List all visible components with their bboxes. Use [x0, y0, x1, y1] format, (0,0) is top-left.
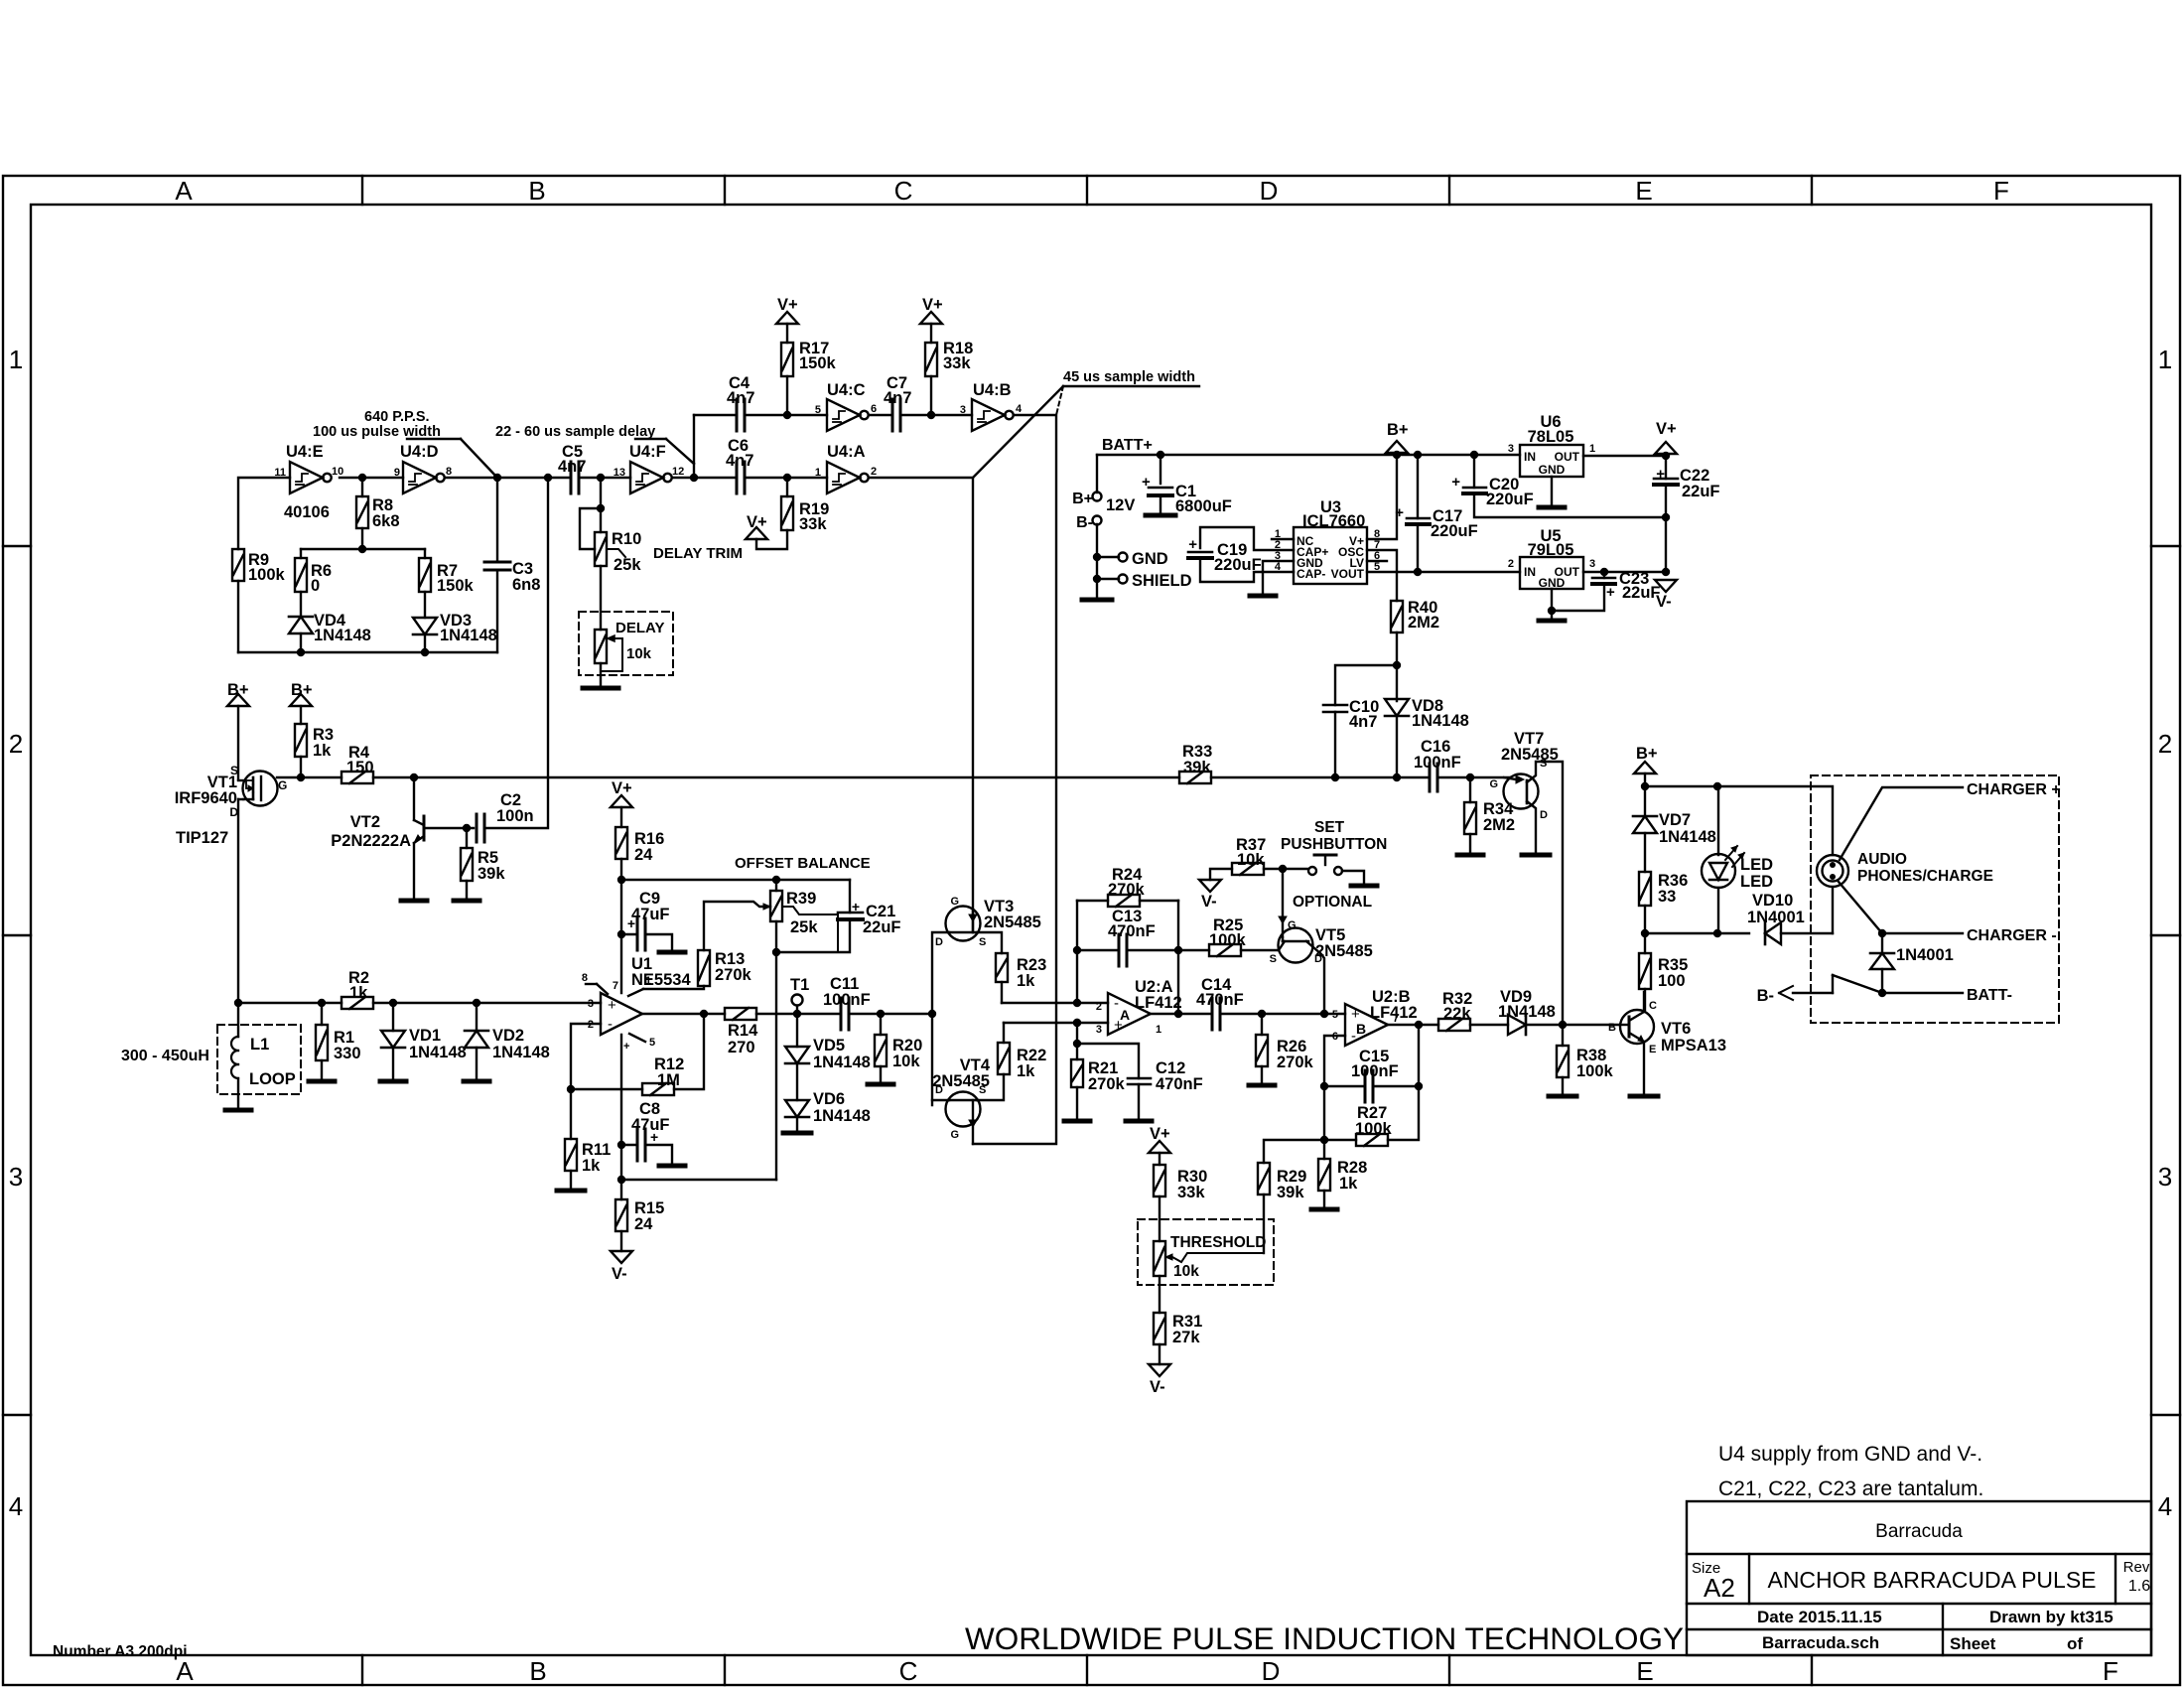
svg-text:LOOP: LOOP [249, 1070, 296, 1088]
svg-text:47uF: 47uF [631, 906, 670, 923]
resistor R11 [570, 1089, 572, 1139]
inverter U4:B [972, 399, 1005, 431]
R37 left to V- [1210, 869, 1232, 880]
svg-text:P2N2222A: P2N2222A [331, 832, 411, 850]
regulator U5 79L05 [1520, 557, 1583, 589]
inductor L1 LOOP [237, 1003, 239, 1037]
ground under R20 [868, 1082, 893, 1087]
terminal B+ battery [1093, 492, 1102, 501]
svg-text:4n7: 4n7 [726, 452, 753, 470]
wire C4 to U4:C [745, 414, 827, 416]
svg-text:V+: V+ [747, 513, 767, 531]
svg-text:1N4148: 1N4148 [314, 627, 371, 644]
svg-text:47uF: 47uF [631, 1116, 670, 1134]
svg-text:220uF: 220uF [1431, 522, 1478, 540]
wire V- rail to R15 [621, 1179, 776, 1181]
ground under VT7 drain [1522, 853, 1550, 858]
svg-text:L1: L1 [250, 1036, 269, 1054]
resistor R19 [781, 496, 793, 530]
svg-text:E: E [1635, 176, 1652, 206]
resistor R4 [341, 772, 373, 783]
VT3 source to R23 [977, 932, 1002, 953]
svg-text:-: - [608, 1016, 613, 1033]
svg-text:330: 330 [334, 1045, 361, 1062]
capacitor C17 [1417, 455, 1419, 518]
svg-text:1N4148: 1N4148 [409, 1044, 467, 1061]
svg-text:33k: 33k [1177, 1184, 1205, 1201]
svg-text:39k: 39k [1183, 759, 1211, 776]
wire U6 out to V+ node [1583, 455, 1666, 457]
wire R4 to VT2 collector junction [373, 776, 414, 778]
diode VD7 [1633, 816, 1657, 833]
svg-text:270k: 270k [1277, 1054, 1314, 1071]
svg-text:AUDIO: AUDIO [1857, 851, 1907, 868]
svg-text:1: 1 [645, 975, 651, 987]
svg-text:3: 3 [2158, 1162, 2172, 1192]
VT4 drain joins vertical [932, 1099, 949, 1101]
svg-text:1.6: 1.6 [2128, 1578, 2150, 1595]
svg-text:of: of [2067, 1634, 2083, 1653]
svg-text:A2: A2 [1704, 1573, 1735, 1603]
svg-text:D: D [935, 936, 943, 948]
capacitor C2 [476, 814, 478, 842]
capacitor C3 [496, 478, 498, 562]
terminal B- battery [1093, 516, 1102, 525]
wire R6/R7 top bar [301, 548, 425, 550]
transistor VT2 P2N2222A (NPN) [413, 777, 415, 820]
resistor R3 [295, 724, 307, 757]
svg-text:6: 6 [871, 403, 877, 415]
capacitor C12 [1077, 1044, 1139, 1078]
svg-text:2: 2 [1096, 1001, 1102, 1013]
diode VD9 [1508, 1015, 1526, 1035]
ground under pushbutton [1351, 884, 1377, 889]
wire C6 to U4:A [745, 477, 827, 479]
resistor R23 [996, 953, 1008, 982]
svg-text:1: 1 [1589, 443, 1595, 455]
transistor VT4 2N5485 sampling JFET [946, 1092, 981, 1127]
ground under R28 [1311, 1207, 1337, 1212]
svg-text:+: + [1188, 536, 1197, 553]
svg-text:2: 2 [2158, 729, 2172, 759]
svg-text:R14: R14 [728, 1022, 758, 1040]
svg-text:9: 9 [394, 467, 400, 479]
svg-text:A: A [176, 1656, 194, 1686]
svg-text:B-: B- [1076, 514, 1093, 531]
resistor R7 [419, 558, 431, 592]
diode VD8 [1385, 699, 1409, 716]
svg-text:PHONES/CHARGE: PHONES/CHARGE [1857, 868, 1993, 885]
resistor R1 [318, 999, 326, 1007]
svg-text:1N4148: 1N4148 [813, 1054, 871, 1071]
svg-text:MPSA13: MPSA13 [1661, 1037, 1726, 1055]
svg-text:4n7: 4n7 [558, 458, 586, 476]
svg-text:V-: V- [1150, 1378, 1165, 1396]
wire upper branch to C4 [694, 414, 737, 416]
svg-text:13: 13 [614, 467, 625, 479]
power V- under R15 [620, 1231, 622, 1251]
resistor R33 in TX line [1179, 772, 1211, 783]
wire U5 out to V- node [1583, 571, 1666, 573]
svg-text:39k: 39k [478, 865, 505, 883]
resistor R18 [925, 343, 937, 376]
svg-text:C21, C22, C23 are tantalum.: C21, C22, C23 are tantalum. [1718, 1477, 1983, 1500]
svg-text:NE5534: NE5534 [631, 971, 691, 989]
svg-text:150k: 150k [437, 577, 475, 595]
wire BATT+ rail [1097, 454, 1520, 456]
trimmer R10 wiper bracket [580, 508, 601, 549]
svg-text:+: + [852, 899, 860, 914]
svg-text:4: 4 [1016, 403, 1023, 415]
regulator U6 78L05 [1520, 445, 1583, 477]
capacitor C15 [1324, 1085, 1365, 1087]
svg-text:WORLDWIDE PULSE INDUCTION TECH: WORLDWIDE PULSE INDUCTION TECHNOLOGY [965, 1620, 1684, 1656]
svg-text:1: 1 [9, 345, 23, 374]
inverter U4:A [827, 462, 860, 493]
wire R22 to U2A +input [1004, 1022, 1108, 1024]
svg-text:1N4148: 1N4148 [492, 1044, 550, 1061]
svg-text:Barracuda: Barracuda [1875, 1521, 1963, 1542]
svg-text:11: 11 [274, 467, 286, 479]
svg-text:C: C [1649, 1000, 1657, 1012]
wire R14 to C11 [756, 1013, 841, 1015]
svg-text:27k: 27k [1172, 1329, 1200, 1346]
svg-text:25k: 25k [614, 556, 641, 574]
wire VT1 gate line [277, 776, 341, 778]
U3 pin1 NC stub [1272, 538, 1294, 540]
svg-text:VD5: VD5 [813, 1037, 845, 1055]
svg-text:IRF9640: IRF9640 [175, 789, 237, 807]
ground right of C9 [659, 950, 685, 955]
svg-text:33k: 33k [943, 354, 971, 372]
svg-text:Barracuda.sch: Barracuda.sch [1762, 1633, 1879, 1652]
svg-text:1: 1 [815, 467, 821, 479]
op-amp U2:B LF412 [1345, 1004, 1388, 1046]
svg-text:1N4148: 1N4148 [440, 627, 497, 644]
svg-text:G: G [950, 1129, 959, 1141]
resistor R12 [571, 1088, 642, 1090]
ground under DELAY pot [583, 686, 618, 691]
wire pot bottom to R31 [1159, 1276, 1160, 1313]
dashed box THRESHOLD [1138, 1219, 1274, 1285]
svg-text:3: 3 [588, 998, 594, 1010]
wire R19 bottom to V+ hook [756, 530, 787, 549]
svg-text:LED: LED [1740, 856, 1773, 874]
feedback vertical right [1177, 901, 1179, 1014]
wire C16 to VT7 gate [1437, 776, 1511, 778]
svg-text:U4:F: U4:F [629, 443, 666, 461]
op-amp U1 NE5534 [601, 993, 642, 1035]
svg-text:VT2: VT2 [350, 813, 380, 831]
svg-text:DELAY: DELAY [615, 620, 664, 636]
svg-text:12V: 12V [1106, 496, 1135, 514]
svg-text:270: 270 [728, 1039, 755, 1056]
svg-text:C: C [894, 176, 913, 206]
capacitor C22 [1665, 456, 1667, 479]
svg-text:3: 3 [1589, 558, 1595, 570]
resistor R34 [1469, 777, 1471, 802]
LED indicator [1702, 854, 1735, 888]
svg-text:U4:B: U4:B [973, 381, 1012, 399]
svg-text:V+: V+ [922, 296, 943, 314]
svg-text:1N4148: 1N4148 [1498, 1003, 1556, 1021]
svg-text:V-: V- [612, 1265, 627, 1283]
wire coil node to R2 line [234, 999, 242, 1007]
svg-text:U4:C: U4:C [827, 381, 866, 399]
wire U4:E input left vertical [238, 478, 290, 549]
svg-text:1: 1 [2158, 345, 2172, 374]
svg-text:470nF: 470nF [1108, 922, 1156, 940]
svg-text:E: E [1649, 1044, 1656, 1055]
svg-text:1k: 1k [1017, 1062, 1035, 1080]
wire R32 to VD9 [1470, 1024, 1508, 1026]
svg-text:G: G [278, 778, 287, 792]
wire U4:E out to U4:D in [340, 477, 403, 479]
resistor R24 [1077, 900, 1108, 902]
transistor VT6 MPSA13 [1620, 1010, 1654, 1044]
svg-text:40106: 40106 [284, 503, 330, 521]
R39 wiper to R13 [704, 902, 770, 950]
potentiometer DELAY 10k [595, 630, 607, 663]
svg-text:1N4001: 1N4001 [1896, 946, 1954, 964]
capacitor C7 [891, 399, 894, 431]
U3 GND pin to ground [1263, 561, 1294, 594]
ground under R1 [309, 1079, 335, 1084]
wire R40 bottom junction [1396, 633, 1398, 701]
capacitor C5 [570, 462, 573, 493]
junction dots C10/VD8 on line [1331, 774, 1339, 781]
svg-text:GND: GND [1539, 463, 1566, 477]
inverter U4:F [630, 462, 663, 493]
svg-text:C: C [899, 1656, 918, 1686]
svg-text:ANCHOR BARRACUDA PULSE: ANCHOR BARRACUDA PULSE [1767, 1567, 2096, 1593]
svg-text:VD7: VD7 [1659, 811, 1691, 829]
resistor R14 [725, 1008, 756, 1020]
capacitor C8 [621, 1144, 637, 1146]
wire C14 to U2B +input [1220, 1013, 1345, 1015]
svg-text:470nF: 470nF [1196, 991, 1244, 1009]
wire DELAY pot to ground [600, 663, 602, 688]
svg-text:Drawn by kt315: Drawn by kt315 [1989, 1608, 2114, 1626]
power V- top right [1655, 580, 1677, 592]
wire oscillator bottom rail [238, 651, 497, 653]
svg-text:R39: R39 [786, 890, 816, 908]
svg-text:CHARGER +: CHARGER + [1967, 781, 2061, 798]
dashed box DELAY [579, 612, 673, 675]
svg-text:VD10: VD10 [1752, 892, 1793, 910]
svg-text:100k: 100k [1576, 1062, 1614, 1080]
svg-text:B+: B+ [227, 681, 249, 699]
svg-text:U4:E: U4:E [286, 443, 324, 461]
resistor R20 [880, 1014, 882, 1035]
svg-text:1: 1 [1156, 1024, 1161, 1036]
wire R2 to U1 +input [373, 1002, 601, 1004]
svg-text:D: D [1260, 176, 1279, 206]
resistor R38 [1562, 1025, 1564, 1046]
dashed box connector [1811, 775, 2059, 1023]
ground under VT6 emitter [1630, 1094, 1658, 1099]
svg-text:4: 4 [2158, 1491, 2172, 1521]
svg-text:VD2: VD2 [492, 1027, 524, 1045]
svg-text:1k: 1k [313, 742, 332, 760]
ground under VD1 [380, 1079, 406, 1084]
VT3 drain to preamp node [932, 932, 949, 1105]
svg-text:33k: 33k [799, 515, 827, 533]
svg-text:24: 24 [634, 1215, 653, 1233]
wire TX gate long line to C16 [414, 776, 1179, 778]
svg-text:VD6: VD6 [813, 1090, 845, 1108]
resistor R8 [356, 496, 368, 528]
wire U4:F output [672, 477, 694, 479]
svg-text:E: E [1636, 1656, 1653, 1686]
ground under VD2 [464, 1079, 489, 1084]
svg-text:5: 5 [815, 404, 821, 416]
svg-text:+: + [1606, 584, 1615, 601]
svg-text:22uF: 22uF [863, 918, 901, 936]
wire B+ line to jack [1645, 786, 1833, 855]
svg-text:GND: GND [1132, 550, 1168, 568]
capacitor C10 [1323, 704, 1347, 707]
svg-text:100k: 100k [1355, 1120, 1393, 1138]
wire lower branch to C6 [694, 477, 737, 479]
ground under R38 [1549, 1094, 1576, 1099]
capacitor C4 [736, 399, 739, 431]
resistor R28 [1318, 1159, 1330, 1191]
wire VT1 drain down to coil [237, 799, 239, 1003]
svg-text:1k: 1k [1339, 1175, 1358, 1193]
ground under battery terminals [1082, 598, 1112, 603]
ground under R26 [1249, 1083, 1275, 1088]
diode VD10 [1765, 922, 1781, 944]
svg-text:U4 supply from GND and V-.: U4 supply from GND and V-. [1718, 1443, 1982, 1466]
diode VD1 [392, 1003, 394, 1031]
wire VT2 base line [424, 827, 474, 829]
svg-text:24: 24 [634, 846, 653, 864]
svg-text:V+: V+ [777, 296, 798, 314]
svg-text:3: 3 [960, 404, 966, 416]
svg-text:470nF: 470nF [1156, 1075, 1203, 1093]
resistor R36 [1639, 872, 1651, 906]
U3 V+ pin to B+ rail [1367, 455, 1397, 539]
svg-text:G: G [950, 896, 959, 908]
wire U4:D out [446, 477, 570, 479]
svg-text:220uF: 220uF [1214, 556, 1262, 574]
svg-text:1k: 1k [1017, 972, 1035, 990]
svg-text:100: 100 [1658, 972, 1686, 990]
resistor R32 [1438, 1019, 1470, 1031]
wire to C10 [1335, 665, 1397, 705]
svg-text:ICL7660: ICL7660 [1302, 512, 1365, 530]
jack AUDIO PHONES/CHARGE [1817, 855, 1848, 887]
svg-text:3: 3 [9, 1162, 23, 1192]
capacitor C23 [1603, 572, 1605, 578]
svg-text:IN: IN [1524, 565, 1536, 579]
svg-text:B+: B+ [1072, 491, 1093, 507]
svg-text:B-: B- [1757, 987, 1774, 1005]
capacitor C16 [1429, 764, 1432, 791]
svg-text:220uF: 220uF [1486, 491, 1534, 508]
svg-text:1M: 1M [657, 1071, 680, 1089]
svg-text:7: 7 [1393, 1013, 1399, 1025]
svg-text:V+: V+ [1656, 420, 1677, 438]
svg-text:BATT-: BATT- [1967, 987, 2012, 1004]
resistor R13 [698, 950, 710, 986]
power V+ above R18 [920, 312, 942, 324]
wire LED cathode line [1645, 932, 1717, 934]
U2:B -input wire [1324, 1036, 1345, 1159]
svg-text:100k: 100k [248, 566, 286, 584]
svg-text:2: 2 [871, 466, 877, 478]
svg-text:THRESHOLD: THRESHOLD [1170, 1234, 1266, 1251]
title block frame [1687, 1501, 2151, 1655]
svg-text:+: + [1142, 474, 1151, 491]
dashed box around L1 [217, 1025, 301, 1094]
ground under C12 [1126, 1119, 1152, 1124]
svg-text:OFFSET BALANCE: OFFSET BALANCE [735, 855, 871, 872]
svg-text:100nF: 100nF [1351, 1062, 1399, 1080]
svg-text:OPTIONAL: OPTIONAL [1293, 894, 1372, 911]
svg-text:0: 0 [311, 577, 320, 595]
wire U4:B output to VT4 gate vertical [973, 415, 1056, 1144]
ground under C1 [1146, 513, 1175, 518]
svg-text:VD1: VD1 [409, 1027, 441, 1045]
wire R37 to pushbutton [1264, 868, 1308, 870]
wire U4:C out to C7 [869, 414, 892, 416]
U3 VOUT line to U5 input [1367, 571, 1520, 573]
svg-text:T1: T1 [790, 976, 809, 994]
svg-text:OUT: OUT [1555, 450, 1580, 464]
svg-text:2N5485: 2N5485 [1315, 942, 1373, 960]
svg-text:2M2: 2M2 [1483, 816, 1515, 834]
svg-text:100k: 100k [1209, 931, 1247, 949]
svg-text:R10: R10 [612, 530, 641, 548]
resistor R29 [1264, 1140, 1324, 1163]
svg-text:22uF: 22uF [1682, 483, 1720, 500]
ground under VD6 [783, 1131, 811, 1136]
svg-text:3: 3 [1096, 1024, 1102, 1036]
svg-text:2N5485: 2N5485 [1501, 746, 1559, 764]
capacitor C9 [621, 933, 637, 935]
resistor R2 [341, 997, 373, 1009]
svg-text:PUSHBUTTON: PUSHBUTTON [1281, 836, 1387, 853]
svg-text:1k: 1k [582, 1157, 601, 1175]
svg-text:2N5485: 2N5485 [932, 1072, 990, 1090]
U3 LV stub [1367, 560, 1387, 562]
resistor R21 [1076, 1023, 1078, 1059]
wire offset balance top line [621, 879, 850, 881]
capacitor C19 with loop to CAP+/CAP- [1200, 527, 1294, 550]
wire VD9 to VT6 base [1526, 1024, 1620, 1026]
svg-text:D: D [1540, 809, 1548, 821]
power V+ top right [1655, 442, 1677, 454]
svg-text:DELAY TRIM: DELAY TRIM [653, 545, 743, 562]
wire R10 top [600, 478, 602, 532]
resistor R22 [998, 1043, 1010, 1074]
wire R9 bottom to rail [237, 581, 239, 652]
resistor R25 [1178, 949, 1209, 951]
svg-text:6800uF: 6800uF [1175, 497, 1232, 515]
capacitor C13 [1077, 949, 1119, 951]
svg-text:S: S [1270, 953, 1277, 965]
svg-text:270k: 270k [1088, 1075, 1126, 1093]
svg-text:CHARGER -: CHARGER - [1967, 927, 2057, 944]
svg-text:G: G [1489, 778, 1498, 790]
svg-text:Number A3 200dpi: Number A3 200dpi [53, 1643, 188, 1660]
svg-text:IN: IN [1524, 450, 1536, 464]
jack tip to CHARGER+ [1840, 787, 1963, 860]
diode VD4 [300, 592, 302, 617]
U1 -input wire down to R11/R12 node [571, 1024, 601, 1089]
